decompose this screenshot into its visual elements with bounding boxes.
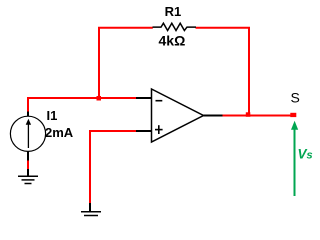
svg-text:2mA: 2mA [45, 125, 74, 140]
svg-text:R1: R1 [165, 4, 182, 19]
svg-text:Vs: Vs [298, 147, 313, 162]
svg-text:S: S [291, 90, 300, 106]
svg-text:4kΩ: 4kΩ [159, 33, 186, 49]
svg-text:I1: I1 [47, 108, 58, 123]
